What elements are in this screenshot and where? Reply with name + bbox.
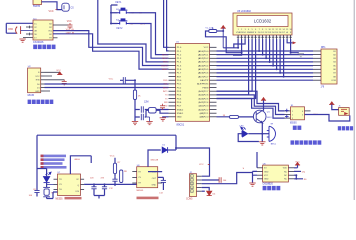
svg-text:VCC: VCC: [264, 175, 269, 177]
svg-text:LCD1602: LCD1602: [254, 18, 272, 23]
ultrasonic transducer CS1: [62, 3, 74, 11]
ground (buzzer): [259, 134, 265, 145]
label VCC (IC1): [67, 21, 72, 23]
label switch: [293, 126, 302, 130]
wire pin3: [26, 26, 33, 29]
pins U6: [257, 168, 294, 179]
svg-text:6: 6: [255, 29, 256, 31]
svg-text:VOL_IN: VOL_IN: [66, 29, 74, 31]
wire vl: [234, 39, 245, 48]
svg-text:P1.0: P1.0: [177, 47, 182, 49]
potentiometer RV1: [205, 28, 216, 33]
resistor R8: [120, 170, 128, 183]
wire pot right: [217, 30, 224, 32]
IC U7 NE555 (generator): [58, 172, 81, 195]
wire U8 out up: [148, 150, 162, 172]
svg-text:1: 1: [238, 29, 239, 31]
transistor Q1: [253, 110, 272, 123]
svg-text:WR: WR: [164, 102, 168, 104]
svg-text:VCC: VCC: [35, 76, 40, 78]
svg-text:VL_10K: VL_10K: [205, 28, 213, 30]
wire: [42, 2, 62, 10]
svg-text:T1: T1: [165, 98, 168, 100]
svg-text:(AD7)P0.7: (AD7)P0.7: [198, 75, 209, 78]
svg-text:3: 3: [292, 118, 293, 120]
svg-text:9013: 9013: [267, 117, 272, 119]
svg-text:(A8)P2.0: (A8)P2.0: [200, 116, 209, 119]
wire B (IC1 out): [53, 34, 169, 69]
designator RP1 value: [321, 86, 325, 89]
wire J2 pin3: [202, 173, 253, 184]
svg-text:5: 5: [252, 29, 253, 31]
svg-text:104: 104: [29, 195, 33, 197]
svg-text:VDD: VDD: [283, 168, 288, 170]
svg-text:3: 3: [245, 29, 246, 31]
designator DS18B20: [263, 183, 274, 186]
svg-text:P1.2: P1.2: [177, 54, 182, 56]
svg-text:VCC: VCC: [49, 10, 54, 13]
svg-text:RD: RD: [164, 106, 168, 108]
svg-text:D1: D1: [162, 145, 166, 147]
svg-text:(A10)P2.2: (A10)P2.2: [198, 108, 209, 111]
svg-text:P3.1: P3.1: [177, 84, 182, 86]
svg-text:ALE/PROG: ALE/PROG: [197, 83, 208, 86]
wire LCD vdd: [233, 39, 243, 55]
switch S3: [116, 19, 129, 25]
wire A (IC1 out): [53, 31, 169, 66]
svg-text:KEY2: KEY2: [162, 58, 168, 60]
svg-text:1N4148: 1N4148: [150, 159, 158, 161]
svg-text:GND: GND: [152, 185, 157, 187]
capacitor C1 (RST, red): [160, 104, 165, 110]
wire cap stub: [120, 79, 127, 81]
svg-text:LED: LED: [240, 125, 245, 127]
svg-text:GND: GND: [264, 179, 269, 181]
svg-text:KEY1: KEY1: [116, 2, 123, 4]
svg-text:R8: R8: [124, 171, 128, 173]
svg-text:2: 2: [191, 180, 192, 182]
net label (S3): [130, 23, 145, 25]
wire TX bottom rail: [47, 192, 58, 199]
LED TX (transmit head): [44, 172, 52, 182]
svg-text:RST: RST: [177, 76, 182, 78]
svg-text:R7: R7: [118, 162, 122, 164]
ground (mic): [19, 39, 25, 42]
ground (DS18B20): [249, 183, 255, 186]
wire LED branch: [37, 169, 47, 177]
label (J2 bottom): [186, 198, 193, 200]
net label 1N4148: [150, 159, 158, 161]
svg-text:14: 14: [283, 29, 285, 31]
switch S2: [116, 8, 129, 14]
svg-text:DS18B20: DS18B20: [263, 183, 274, 186]
svg-text:473: 473: [101, 177, 105, 179]
svg-text:P1.5: P1.5: [177, 65, 182, 67]
wire U6 right low: [294, 174, 307, 181]
wire U7 top: [70, 156, 91, 174]
net label CMP_IN: [66, 33, 75, 35]
svg-text:TXD: TXD: [163, 84, 168, 86]
buzzer BELL: [267, 124, 277, 146]
resistor network RP1: [321, 47, 337, 84]
IC U2 display interface: [28, 66, 41, 93]
resistor R7: [110, 155, 121, 176]
net label (pin3): [243, 168, 245, 170]
pins MCU right: [210, 47, 217, 117]
diode D1: [162, 145, 167, 153]
net label (S2): [131, 12, 142, 15]
svg-text:12M: 12M: [144, 102, 149, 104]
label display-drive-interface: [28, 100, 54, 104]
wire pin4: [26, 33, 33, 36]
svg-text:VCC: VCC: [295, 162, 300, 164]
wire rail low: [134, 100, 136, 122]
LCD screen: [237, 16, 288, 27]
svg-text:P3.4: P3.4: [177, 95, 182, 97]
svg-text:(AD1)P0.1: (AD1)P0.1: [198, 53, 209, 56]
label KEY1: [116, 2, 123, 4]
wire J2 pin5: [202, 190, 205, 192]
svg-text:RQ: RQ: [49, 30, 53, 32]
capacitor C11: [101, 177, 108, 195]
resistor R2: [133, 90, 141, 100]
wire LED left: [238, 134, 259, 142]
svg-text:(AD0)P0.0: (AD0)P0.0: [198, 50, 209, 53]
svg-text:S: S: [243, 168, 245, 170]
wire U2 p6: [45, 90, 51, 92]
capacitor C6: [123, 77, 125, 83]
wire xtal bot: [135, 110, 146, 117]
wire J2 pin4: [202, 188, 210, 191]
svg-text:12: 12: [276, 29, 278, 31]
svg-text:P3.5: P3.5: [177, 98, 182, 100]
label 12M: [144, 102, 149, 104]
pins U4: [285, 111, 311, 118]
wire LCD rs: [217, 39, 249, 95]
LCD module frame: [233, 13, 292, 35]
svg-text:P1.6: P1.6: [177, 69, 182, 71]
wire (vert from top 2): [167, 0, 169, 51]
wire caps bottom: [94, 196, 105, 199]
label KEY2: [117, 28, 124, 30]
capacitor C4 (red): [68, 23, 73, 29]
capacitor C10: [90, 177, 97, 195]
svg-text:1*9: 1*9: [321, 86, 325, 89]
svg-text:(AD3)P0.3: (AD3)P0.3: [198, 61, 209, 64]
svg-text:(A14)P2.6: (A14)P2.6: [198, 94, 209, 97]
capacitor marks (U4): [285, 109, 289, 119]
wire LED to crystal: [46, 183, 48, 188]
wire pin2: [21, 29, 33, 31]
svg-text:U5 LCD1602: U5 LCD1602: [237, 10, 251, 13]
svg-text:1: 1: [292, 111, 293, 113]
svg-text:16: 16: [290, 29, 292, 31]
net label VCC (J2): [199, 164, 210, 166]
capacitor C3: [141, 114, 143, 120]
wire U7 out: [84, 183, 137, 185]
power VCC (input): [329, 102, 338, 110]
svg-text:P3.6: P3.6: [177, 102, 182, 104]
ground (xtal rail): [132, 122, 138, 125]
wire U2 vcc: [45, 72, 60, 74]
resistor R9 (top, cropped): [33, 0, 42, 8]
svg-text:(A15)P2.7: (A15)P2.7: [198, 90, 209, 93]
designator U8 label: [137, 190, 159, 199]
wire (mic loop bottom): [6, 32, 16, 34]
svg-text:(A13)P2.5: (A13)P2.5: [198, 97, 209, 100]
wire EA pullup: [217, 79, 314, 81]
net label TOL_IN: [66, 29, 74, 31]
svg-text:GND: GND: [264, 171, 269, 173]
power VCC (U2): [56, 70, 62, 75]
svg-text:NE555: NE555: [137, 190, 144, 192]
wire LCD bla: [287, 39, 296, 44]
svg-text:C12: C12: [109, 188, 114, 190]
svg-text:1: 1: [191, 176, 192, 178]
svg-text:PSEN: PSEN: [202, 87, 208, 89]
svg-text:KEY2: KEY2: [117, 28, 124, 30]
net label DQ: [294, 171, 305, 173]
svg-text:R/W: R/W: [36, 80, 40, 82]
svg-text:(AD2)P0.2: (AD2)P0.2: [198, 57, 209, 60]
crystal Y2 (TX): [43, 187, 54, 196]
pins MCU left: [169, 47, 176, 117]
IC U4 switch: [291, 105, 305, 120]
designator CX20106: [33, 41, 44, 44]
wire pin5: [23, 37, 33, 39]
microphone RX transducer: [8, 26, 20, 34]
svg-text:(A11)P2.3: (A11)P2.3: [199, 105, 209, 108]
IC U6 DS18B20: [263, 163, 289, 182]
wire (S2 to MCU): [129, 13, 169, 55]
svg-text:P3.3: P3.3: [177, 91, 182, 93]
key rail: [110, 5, 112, 25]
note text block: [41, 155, 67, 169]
wire P2 to switch 3: [217, 99, 285, 119]
wire (mic loop left): [5, 23, 7, 33]
svg-text:RXD: RXD: [163, 80, 168, 82]
svg-text:P3.0: P3.0: [177, 80, 182, 82]
wire diode out: [168, 147, 177, 150]
svg-text:GND: GND: [35, 91, 40, 93]
svg-text:P1.3: P1.3: [177, 58, 182, 60]
label power-input: [338, 126, 353, 130]
svg-text:RXD: RXD: [8, 29, 13, 31]
svg-text:EA/VPP: EA/VPP: [200, 79, 208, 82]
svg-text:VCC: VCC: [199, 164, 204, 166]
svg-text:TR: TR: [49, 37, 52, 39]
wire to LED: [248, 133, 262, 135]
svg-text:TRIG: TRIG: [163, 62, 168, 64]
svg-text:P1.7: P1.7: [177, 73, 182, 75]
svg-text:(A12)P2.4: (A12)P2.4: [198, 101, 209, 104]
svg-text:5: 5: [302, 114, 303, 116]
svg-text:CS: CS: [71, 8, 75, 10]
wire J2 pin2: [202, 179, 219, 181]
wire (vert from top 1): [164, 0, 169, 47]
wire vcc rail: [127, 79, 137, 90]
designator U4: [290, 123, 297, 125]
svg-text:7: 7: [259, 29, 260, 31]
net labels MCU left: [161, 54, 168, 107]
svg-text:P3.2: P3.2: [177, 87, 182, 89]
svg-text:DQ: DQ: [302, 171, 306, 173]
ground (xtal2): [145, 117, 153, 125]
ground (backlight, gray): [298, 54, 304, 57]
svg-text:1K: 1K: [138, 96, 141, 98]
svg-text:10: 10: [269, 29, 271, 31]
svg-text:(AD5)P0.5: (AD5)P0.5: [198, 68, 209, 71]
svg-text:5: 5: [191, 191, 192, 193]
svg-text:(AD6)P0.6: (AD6)P0.6: [198, 72, 209, 75]
wire P2 to switch 1: [217, 91, 285, 111]
svg-text:KEY1: KEY1: [162, 54, 168, 56]
svg-text:2: 2: [241, 29, 242, 31]
svg-text:XTAL2: XTAL2: [177, 108, 184, 111]
power VCC (Q1): [261, 98, 266, 111]
svg-text:COM: COM: [331, 80, 336, 82]
connector J1 power input: [338, 106, 349, 116]
svg-text:CON5: CON5: [186, 198, 193, 200]
svg-text:XTAL1: XTAL1: [177, 112, 184, 115]
svg-text:89C51: 89C51: [177, 123, 185, 127]
wire LCD rw: [217, 39, 253, 91]
wire xtal top: [135, 109, 169, 111]
svg-text:103: 103: [90, 177, 94, 179]
svg-text:D4: D4: [213, 193, 217, 195]
svg-text:TH: TH: [270, 124, 273, 126]
designator LCD1602: [237, 10, 251, 13]
svg-text:P3.7: P3.7: [177, 106, 182, 108]
label TX-generator: [56, 197, 82, 200]
MCU U1 AT89C51: [176, 42, 210, 122]
svg-text:MC45: MC45: [28, 94, 35, 97]
svg-text:Q1: Q1: [267, 111, 271, 113]
wire J2 pin1 up: [176, 135, 210, 176]
ground (MCU gnd): [160, 117, 169, 121]
svg-text:C13: C13: [159, 192, 164, 194]
wire U2 long1: [45, 83, 169, 85]
power VCC (pot): [221, 26, 226, 48]
svg-text:INT1: INT1: [163, 91, 168, 93]
wire LCD blk: [290, 39, 299, 54]
wire U2 p2: [45, 75, 53, 77]
pins U8: [132, 172, 162, 183]
op-amp IC1 CX20106: [33, 18, 53, 40]
svg-text:VCC: VCC: [109, 78, 114, 80]
svg-text:2: 2: [292, 114, 293, 116]
net label VCC (switch): [312, 114, 318, 116]
svg-text:(AD4)P0.4: (AD4)P0.4: [198, 64, 209, 67]
pins LCD: [237, 35, 292, 39]
sheet right border: [353, 0, 355, 200]
svg-text:(A9)P2.1: (A9)P2.1: [200, 112, 209, 115]
svg-text:8: 8: [262, 29, 263, 31]
capacitor C8: [29, 189, 40, 197]
svg-text:4: 4: [191, 187, 192, 189]
svg-text:CMP_IN: CMP_IN: [66, 33, 75, 35]
svg-text:BELL: BELL: [271, 144, 277, 146]
svg-text:P1.4: P1.4: [177, 62, 182, 64]
svg-text:RP1: RP1: [321, 47, 326, 49]
label buzzer-alarm: [291, 140, 322, 144]
IC U8 NE555 (driver): [137, 165, 158, 188]
svg-text:6: 6: [302, 111, 303, 113]
svg-text:P1.1: P1.1: [177, 51, 182, 53]
capacitor C5 (red): [45, 79, 67, 85]
wire LCD e: [217, 39, 256, 99]
capacitor C12: [109, 177, 118, 190]
capacitor C2: [141, 106, 143, 112]
LED D3: [240, 125, 248, 136]
label VCC (xtal): [109, 78, 114, 80]
svg-text:I/O: I/O: [264, 168, 267, 170]
wire TX left rail: [36, 135, 38, 196]
wire C (from top): [98, 0, 169, 62]
label VCC: [49, 10, 58, 13]
svg-text:4: 4: [248, 29, 249, 31]
svg-text:11: 11: [272, 29, 274, 31]
connector J2 CON5: [190, 172, 197, 197]
net label (U7 top): [74, 159, 80, 161]
designator 89C51: [177, 123, 185, 127]
svg-text:T0: T0: [165, 95, 168, 97]
wire P2 to switch 2: [217, 95, 285, 115]
svg-text:13: 13: [279, 29, 281, 31]
capacitor C9 (red): [219, 177, 227, 183]
diode D4 (red): [207, 191, 217, 195]
wire VCC pin: [53, 24, 69, 26]
resistor R10: [217, 115, 254, 118]
label ultrasonic-receive: [33, 45, 55, 50]
bus D0-D7 / P0: [217, 39, 314, 78]
pins U7: [47, 179, 85, 189]
designator (U2): [28, 94, 35, 97]
wire emitter: [261, 123, 263, 135]
svg-text:NE555: NE555: [56, 198, 64, 200]
wire pin bottom: [53, 37, 58, 39]
svg-text:104: 104: [223, 180, 227, 182]
wire LCD vss: [223, 39, 239, 49]
LCD pin names: [236, 29, 292, 34]
wire (S3 to MCU): [129, 24, 169, 59]
svg-text:ECHO: ECHO: [161, 65, 167, 67]
pins J2: [197, 176, 202, 191]
svg-text:40KH: 40KH: [74, 159, 80, 161]
pins RP1: [313, 51, 321, 80]
svg-text:R6: R6: [304, 179, 308, 181]
capacitor C13: [158, 177, 166, 194]
svg-text:15: 15: [286, 29, 288, 31]
svg-text:5537B: 5537B: [33, 5, 40, 8]
svg-text:CX20106: CX20106: [33, 41, 44, 44]
wire pot left: [206, 31, 242, 53]
crystal Y1: [146, 108, 169, 114]
svg-text:VCC: VCC: [67, 21, 72, 23]
wire switch out: [305, 115, 350, 122]
label temperature-detect: [263, 186, 281, 190]
svg-text:VCC: VCC: [56, 70, 61, 72]
svg-text:VCC: VCC: [204, 47, 209, 49]
wire U6 left: [253, 152, 258, 183]
wire (key rail stub): [111, 5, 118, 24]
wire (mic loop top): [6, 22, 33, 24]
power VCC (DS18B20): [294, 162, 300, 168]
svg-text:8550S: 8550S: [290, 123, 297, 125]
svg-text:GND: GND: [177, 117, 182, 119]
svg-text:9: 9: [266, 29, 267, 31]
svg-text:VCC: VCC: [110, 155, 115, 157]
